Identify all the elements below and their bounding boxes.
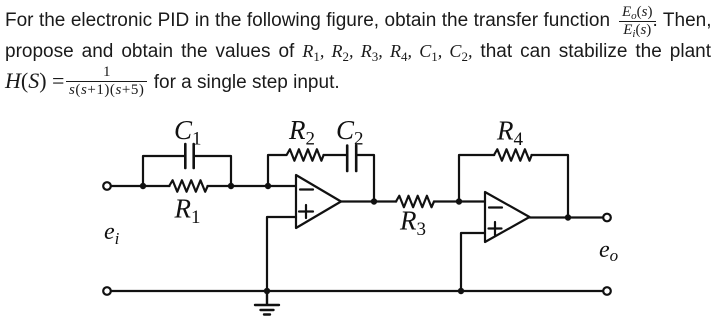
op-amp U2 minus sign: [489, 206, 502, 208]
svg-text:R3: R3: [399, 206, 426, 241]
paragraph line 3: [5, 71, 340, 93]
svg-text:C1: C1: [174, 115, 202, 150]
wire op-amp U1 output to node D: [341, 200, 374, 202]
wire R4 branch left riser: [459, 155, 494, 202]
input terminal ei: [103, 182, 111, 190]
node F junction dot: [565, 214, 571, 220]
paragraph line 2: [5, 41, 711, 62]
bottom-left terminal: [103, 287, 111, 295]
op-amp U1 plus sign: [299, 205, 313, 218]
wire node F to output terminal: [568, 216, 603, 218]
svg-text:R1: R1: [174, 194, 201, 229]
svg-text:R4: R4: [496, 116, 524, 151]
node A junction dot: [140, 183, 146, 189]
capacitor C2: [347, 146, 356, 172]
resistor R4: [494, 149, 532, 161]
svg-text:R2: R2: [288, 115, 315, 150]
wire R2 to C2: [324, 154, 347, 156]
wire C1 branch left riser: [143, 156, 184, 186]
wire R2 branch left riser: [268, 155, 286, 186]
ground: [255, 291, 279, 315]
paragraph line 1: [5, 11, 711, 31]
node D junction dot: [371, 198, 377, 204]
paragraph line 1 fraction Eo(s)/Ei(s): [619, 6, 656, 37]
svg-text:C2: C2: [336, 115, 364, 150]
wire R1 to node B: [208, 185, 232, 187]
wire node D to R3: [374, 200, 396, 202]
node B junction dot: [228, 183, 234, 189]
wire R4 to feedback drop: [532, 155, 569, 218]
wire node C to op-amp U1 inverting input: [268, 185, 296, 187]
node C junction dot (inverting input node): [265, 183, 271, 189]
wire op-amp U2 output to node F: [530, 216, 569, 218]
wire C1 branch right riser: [195, 156, 231, 186]
wire node A to R1: [143, 185, 170, 187]
wire op-amp U2 non-inverting input to bottom rail: [461, 233, 485, 291]
ground junction dot: [264, 288, 270, 294]
op-amp U2: [485, 192, 530, 242]
resistor R1: [169, 180, 207, 192]
bottom rail wire: [111, 290, 603, 292]
op-amp U1 minus sign: [300, 188, 313, 190]
node E junction dot: [456, 198, 462, 204]
wire input to node A: [111, 185, 143, 187]
op-amp U1: [296, 175, 341, 228]
wire R3 to node E: [434, 200, 459, 202]
wire node B to node C: [231, 185, 268, 187]
op-amp U2 plus sign: [489, 222, 502, 235]
wire node E to op-amp U2 inverting input: [459, 200, 485, 202]
bottom-right terminal: [603, 287, 611, 295]
svg-text:ei: ei: [104, 219, 120, 248]
resistor R3: [396, 196, 434, 208]
capacitor C1: [185, 144, 193, 168]
node G junction dot: [458, 288, 464, 294]
paragraph line 3 fraction 1/(s(s+1)(s+5)): [66, 66, 147, 97]
wire op-amp U1 non-inverting input to ground rail: [267, 217, 296, 291]
output terminal eo: [603, 214, 611, 222]
svg-text:eo: eo: [599, 237, 618, 265]
resistor R2: [287, 149, 324, 161]
wire C2 to feedback drop: [358, 155, 375, 202]
